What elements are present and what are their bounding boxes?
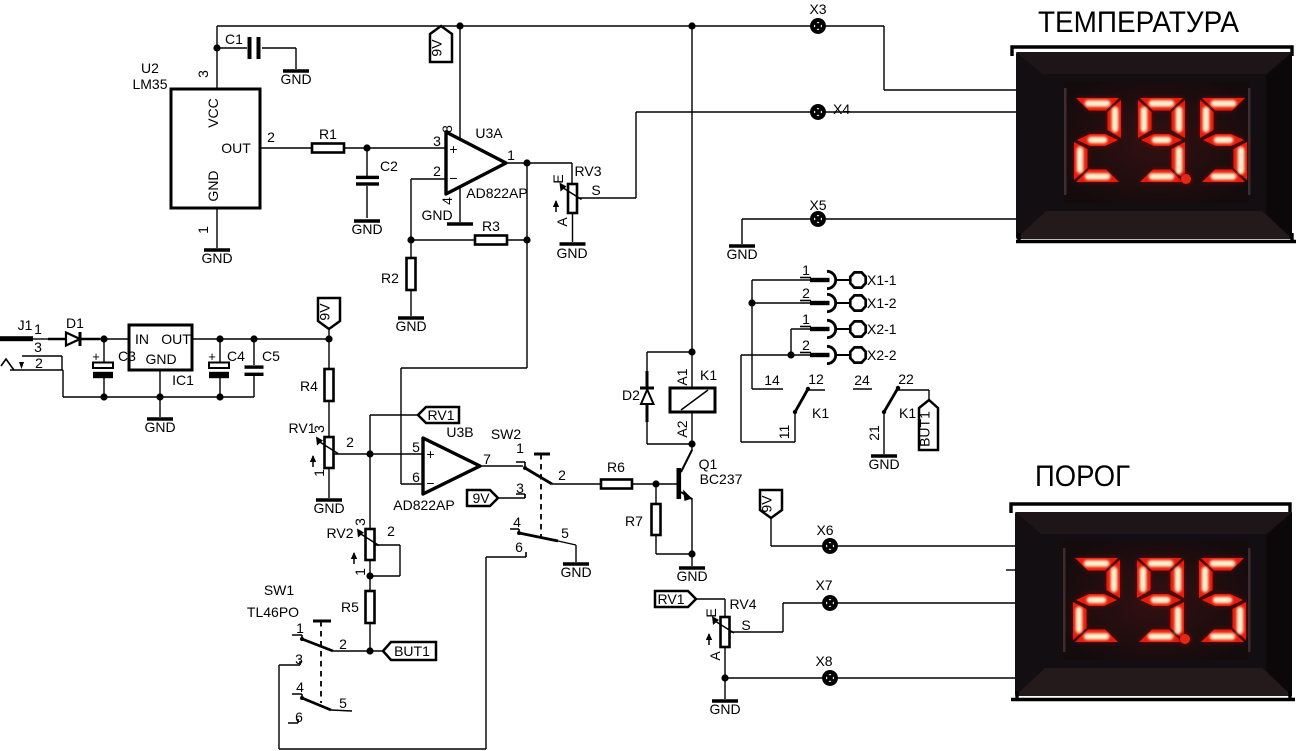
junction 9V flag rail [325,335,332,342]
svg-text:A2: A2 [674,420,690,437]
svg-text:+: + [426,446,434,462]
svg-text:1: 1 [516,440,524,456]
switch SW1 [247,582,352,725]
ground RV4 [709,701,740,717]
wire R4 top [328,339,330,369]
svg-text:IC1: IC1 [172,372,194,388]
wire R7 bottom [656,535,692,554]
svg-text:9V: 9V [759,495,775,513]
svg-text:4: 4 [296,679,304,695]
svg-text:R5: R5 [341,599,359,615]
svg-text:GND: GND [313,500,344,516]
svg-text:+: + [449,141,457,157]
junction top rail / relay branch [688,22,695,29]
svg-text:K1: K1 [899,405,916,421]
net flag RV1 [418,407,459,423]
node temperature signal [363,144,370,151]
ground U3A pin4 [421,207,473,224]
capacitor C1 [217,31,296,69]
junction bus C3 [100,393,107,400]
svg-text:R7: R7 [625,513,643,529]
net flag RV1 rv4 [655,591,696,607]
svg-text:A: A [554,217,570,227]
display bracket top T [1012,47,1292,56]
wire X7 line [783,602,1016,604]
wire SW2 pin6 route to SW1 pin3 [279,557,516,749]
testpoint X4 [812,106,824,118]
svg-text:R4: R4 [300,378,318,394]
svg-text:2: 2 [802,285,810,301]
svg-text:OUT: OUT [221,140,251,156]
wire X5 gnd stem [741,219,743,244]
svg-text:2: 2 [339,636,347,652]
display module TEMPERATURA [1016,52,1292,239]
svg-text:5: 5 [339,695,347,711]
wire RV4 bottom [724,647,726,699]
ground contact 21 [868,456,899,472]
svg-text:RV1: RV1 [658,591,685,607]
svg-text:U2: U2 [141,60,159,76]
svg-text:RV3: RV3 [575,163,602,179]
wire D1 to IC1 IN [100,338,129,340]
wire to RV3 E [571,163,573,184]
testpoint X6 [824,540,836,552]
svg-text:GND: GND [145,351,176,367]
svg-text:RV1: RV1 [428,407,455,423]
wire RV3 A to gnd [572,213,574,242]
svg-text:TL46PO: TL46PO [247,604,299,620]
resistor R3 [475,218,507,245]
wire stub POROG pin2 [1006,569,1016,571]
svg-text:OUT: OUT [161,331,191,347]
potentiometer RV1 [289,420,355,477]
svg-text:4: 4 [439,197,455,205]
wire coil A1 [691,352,693,388]
svg-text:GND: GND [556,245,587,261]
wire SW2 pin2 to R6 [552,483,601,485]
capacitor C3 [92,339,136,397]
svg-text:X7: X7 [815,577,832,593]
potentiometer RV2 [327,518,396,576]
potentiometer RV3 [550,163,602,227]
junction base R7 [652,480,659,487]
net flag BUT1 [383,642,436,660]
svg-text:X2-1: X2-1 [867,321,897,337]
svg-text:GND: GND [205,170,221,201]
svg-text:X5: X5 [809,197,826,213]
power flag 9V supply [317,298,341,329]
connector pin X2-1 [800,311,897,338]
junction X1 net [748,299,755,306]
junction RV4 X8 [721,674,728,681]
ground RV1 [313,500,344,516]
relay coil K1 [670,367,717,438]
wire U3B output [480,465,523,467]
svg-text:2: 2 [433,163,441,179]
wire RV2 bottom [369,560,371,591]
testpoint X7 [824,597,836,609]
wire 9V flag stem [328,329,330,339]
junction bus C4 [216,393,223,400]
svg-text:X8: X8 [815,653,832,669]
svg-text:R1: R1 [319,126,337,142]
wire R3 row [411,239,527,241]
resistor R6 [601,459,632,489]
wire R1 to U3A pin3 [344,147,446,149]
node RV1 wiper net [366,450,373,457]
svg-text:IN: IN [135,331,149,347]
svg-text:GND: GND [560,564,591,580]
power flag 9V top [429,26,453,62]
svg-text:1: 1 [296,620,304,636]
junction R2 R3 [407,236,414,243]
potentiometer RV4 [703,596,757,661]
svg-text:LM35: LM35 [132,76,167,92]
svg-text:R2: R2 [381,270,399,286]
svg-text:5: 5 [412,439,420,455]
power flag 9V x6 [759,490,783,518]
transistor Q1 [677,450,743,501]
wire gnd stem [159,397,161,417]
wire RV1 net down to RV2 [369,454,371,529]
capacitor C2 [356,148,398,218]
svg-text:X1-2: X1-2 [867,295,897,311]
svg-text:K1: K1 [812,405,829,421]
IC U2 LM35 [132,60,275,234]
svg-text:X3: X3 [809,1,826,17]
wire X2-2 left [741,354,810,356]
svg-text:C4: C4 [227,348,245,364]
svg-text:9V: 9V [472,490,490,506]
svg-text:6: 6 [412,469,420,485]
svg-text:GND: GND [868,456,899,472]
testpoint X3 [812,20,824,32]
svg-text:1: 1 [507,147,515,163]
wire X1-2 left [752,302,810,304]
wire RV4 S to X7 [729,603,783,632]
connector pin X2-2 [800,337,897,364]
svg-text:X1-1: X1-1 [867,272,897,288]
svg-text:2: 2 [35,355,43,371]
svg-text:BUT1: BUT1 [394,643,430,659]
svg-text:−: − [426,475,434,491]
junction U3A out [523,159,530,166]
wire R6 to base [632,483,678,485]
connector pin X1-1 [800,262,897,289]
op-amp U3A [433,125,528,205]
svg-text:8: 8 [439,125,455,133]
resistor R5 [341,591,374,623]
svg-text:D2: D2 [622,387,640,403]
svg-text:GND: GND [395,318,426,334]
svg-text:1: 1 [311,469,327,477]
svg-text:1: 1 [802,311,810,327]
svg-text:K1: K1 [700,367,717,383]
svg-text:J1: J1 [18,317,33,333]
op-amp U3B [393,424,491,513]
svg-text:−: − [449,170,457,186]
svg-text:1: 1 [802,262,810,278]
ground C2 [351,221,382,237]
capacitor C5 [245,339,281,397]
svg-text:VCC: VCC [205,98,221,128]
svg-text:RV2: RV2 [327,525,354,541]
wire R7 top [655,484,657,504]
wire R2 top [410,240,412,258]
svg-text:U3A: U3A [475,125,503,141]
ground U2 [201,250,232,266]
junction RV2 R5 [366,572,373,579]
wire RV2 wiper loop [370,545,400,576]
wire U3A out feedback down [401,163,527,484]
svg-text:AD822AP: AD822AP [393,497,454,513]
svg-text:C2: C2 [380,158,398,174]
svg-text:BC237: BC237 [700,471,743,487]
svg-text:11: 11 [776,425,792,440]
svg-text:GND: GND [676,568,707,584]
svg-text:S: S [741,617,750,633]
svg-text:24: 24 [854,372,870,388]
wire RV1 wiper [333,453,370,455]
svg-text:C3: C3 [118,348,136,364]
wire main 9V vertical [691,26,693,352]
net flag BUT1 relay [917,400,939,450]
wire U3A pin 8 [459,26,461,139]
svg-text:C5: C5 [262,348,280,364]
ground SW2 [560,564,591,580]
svg-text:GND: GND [421,207,452,223]
wire RV1 net to flag [370,415,418,454]
svg-text:A: A [707,651,723,661]
display module POROG [1015,512,1292,696]
ground RV3 [556,244,587,261]
svg-text:4: 4 [513,514,521,530]
resistor R1 [312,126,344,153]
wire X4 line [636,111,1016,113]
wire U2 OUT to R1 [260,147,312,149]
svg-text:X4: X4 [833,101,850,117]
svg-text:R6: R6 [607,459,625,475]
wire emitter down [691,498,693,554]
wire U3A pin 2 [411,179,446,240]
capacitor C4 [208,339,245,397]
resistor R4 [300,369,333,401]
svg-text:3: 3 [195,70,211,78]
regulator IC1 [129,325,194,388]
svg-text:E: E [550,174,566,183]
svg-text:ПОРОГ: ПОРОГ [1035,460,1130,493]
testpoint X5 [812,213,824,225]
svg-text:3: 3 [311,425,327,433]
svg-text:GND: GND [351,221,382,237]
wire D2 loop [647,352,692,444]
switch SW2 [491,426,569,557]
junction relay top [688,348,695,355]
wire X8 line [725,677,1016,679]
ground C1 [280,71,311,87]
wire IC1 GND pin [159,370,161,397]
diode D2 [622,371,654,422]
wire RV1 bottom [328,468,330,498]
wire flag to RV4 [696,599,725,617]
junction R3 right [523,236,530,243]
junction X2 net [787,351,794,358]
wire to U3B pin5 [370,453,423,455]
relay contact K1 left [763,371,829,442]
wire X1 net down to contact 14 [752,280,763,389]
wire emitter gnd stem [691,554,693,566]
svg-text:2: 2 [387,523,395,539]
ground supply [144,419,175,435]
junction C4 top [216,335,223,342]
wire SW1 pin2 to R5 node [333,650,370,652]
display bracket bottom P [1011,691,1295,700]
display bracket top P [1011,504,1290,513]
ground R2 [395,318,426,334]
wire U2 pin 1 [216,208,218,248]
svg-text:Q1: Q1 [699,456,718,472]
wire U3A output [506,162,572,164]
svg-text:GND: GND [709,701,740,717]
wire SW2 pin5 to gnd [558,541,576,562]
svg-text:3: 3 [34,339,42,355]
svg-text:GND: GND [280,71,311,87]
svg-text:2: 2 [346,434,354,450]
connector pin X1-2 [800,285,897,312]
wire RV3 S to X4 net [577,112,636,198]
svg-text:AD822AP: AD822AP [466,185,527,201]
connector J1 [0,317,63,371]
svg-text:D1: D1 [66,315,84,331]
svg-text:GND: GND [201,250,232,266]
ground Q1 [676,568,707,584]
svg-text:BUT1: BUT1 [917,411,933,447]
svg-text:1: 1 [195,226,211,234]
resistor R7 [625,504,660,535]
wire contact 22 to BUT1 [915,390,929,401]
wire IC1 OUT rail [192,338,329,340]
display bracket bottom T [1016,233,1296,242]
svg-text:5: 5 [561,525,569,541]
testpoint X8 [824,672,836,684]
svg-text:SW1: SW1 [264,582,295,598]
svg-text:2: 2 [802,337,810,353]
svg-text:RV4: RV4 [730,596,757,612]
wire X1-1 left [752,279,810,281]
junction U2 pin3 / C1 [213,44,220,51]
svg-text:X6: X6 [816,522,833,538]
svg-text:U3B: U3B [446,424,473,440]
svg-text:6: 6 [515,539,523,555]
junction D1 out / C3 [100,335,107,342]
wire X2 net to contact 11 [741,355,795,442]
svg-text:21: 21 [866,425,882,441]
svg-text:R3: R3 [482,218,500,234]
junction emitter R7 [688,550,695,557]
junction bus IC1 [156,393,163,400]
wire 9V to SW2 pin3 [498,494,525,498]
svg-text:E: E [703,608,719,617]
resistor R2 [381,258,415,290]
svg-text:GND: GND [726,246,757,262]
svg-text:1: 1 [352,568,368,576]
svg-text:7: 7 [483,451,491,467]
junction top rail / U3A pin8 [456,22,463,29]
svg-text:14: 14 [764,372,780,388]
svg-text:3: 3 [433,133,441,149]
relay contact K1 right [853,371,916,454]
svg-text:3: 3 [352,518,368,526]
diode D1 [48,315,100,346]
wire U2 pin 3 [216,26,218,89]
junction C5 top [250,335,257,342]
power flag 9V sw2 [467,490,498,506]
svg-text:ТЕМПЕРАТУРА: ТЕМПЕРАТУРА [1038,6,1239,39]
svg-text:2: 2 [267,129,275,145]
wire R5 to BUT1 [370,623,383,651]
ground X5 [726,246,757,262]
wire J1 sleeve down [62,370,64,397]
svg-text:A1: A1 [674,368,690,385]
wire collector [691,444,693,451]
svg-text:1: 1 [34,321,42,337]
svg-text:S: S [591,182,600,198]
wire ground bus [63,396,254,398]
svg-text:22: 22 [898,371,914,387]
svg-text:C1: C1 [225,31,243,47]
svg-text:GND: GND [144,419,175,435]
svg-text:9V: 9V [317,303,333,321]
svg-text:X2-2: X2-2 [867,347,897,363]
wire R2 bottom [410,290,412,316]
wire X5 line [742,218,1016,220]
wire 9V top rail [217,25,884,27]
wire X2-1 left [791,329,810,355]
wire U3A pin 4 [459,187,461,222]
junction R5 SW1 BUT1 [366,647,373,654]
svg-text:12: 12 [808,371,824,387]
wire X3 branch to display [884,26,1016,90]
junction relay bottom [688,440,695,447]
svg-text:3: 3 [295,651,303,667]
wire coil A2 [691,412,693,444]
svg-text:2: 2 [558,467,566,483]
svg-text:9V: 9V [429,39,445,57]
wire R4 to RV1 [328,401,330,437]
wire 9V to X6 line [771,518,1016,546]
